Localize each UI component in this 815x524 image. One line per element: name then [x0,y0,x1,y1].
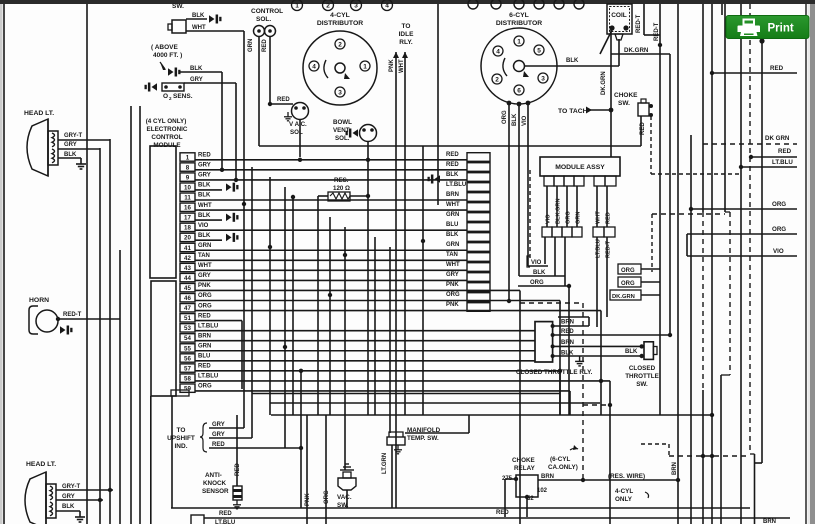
long wire y415 [271,413,714,417]
wire ecm pin 20 BLK [195,239,222,241]
wire rly RED [551,333,673,337]
svg-text:BLK: BLK [198,213,211,219]
ecm pin 53 LT.BLU label [198,323,218,329]
svg-text:45: 45 [184,285,191,292]
junction v301 row57 [299,369,303,373]
ecm pin 44 box [180,273,195,282]
svg-text:1: 1 [295,2,299,9]
closed throttle rly body [535,322,553,362]
closed throttle sw label [625,365,659,388]
svg-text:BLK: BLK [198,183,211,189]
ecm pin 55 GRN label [198,343,211,349]
svg-text:47: 47 [184,305,191,312]
ecm body lower [151,281,176,396]
6-cyl terminal 3 [538,73,548,83]
svg-text:BLK: BLK [190,66,203,72]
svg-text:VIO: VIO [522,115,528,126]
svg-text:TEMP. SW.: TEMP. SW. [407,435,439,442]
ecm pin 42 TAN label [198,253,210,259]
svg-text:RED: RED [262,39,268,52]
svg-text:53: 53 [184,325,191,332]
wire vac-sol RED label [277,97,290,103]
wire LT.BLU bottom label [215,520,235,524]
wire SW BLK [186,18,207,20]
wire bus x703a [702,4,704,212]
svg-text:O: O [163,93,168,100]
svg-text:6-CYL: 6-CYL [509,12,529,19]
wire left bus A [86,4,88,524]
head light HL2 label [26,461,56,468]
svg-text:(RES. WIRE): (RES. WIRE) [608,473,645,480]
ecm pin 17 BLK label [198,213,211,219]
wire horn RED-T [58,318,120,320]
switch SW body [168,20,186,33]
choke relay terminal a [514,477,518,481]
6-cyl terminal 2 [492,74,502,84]
wire dashed h456 [669,454,750,458]
net DK.GRN label [610,290,641,300]
connector2 LT.BLU label [446,182,466,188]
svg-text:Print: Print [768,23,794,35]
junction mesh e [328,293,332,297]
ecm pin 20 box [180,233,195,242]
wire rly BRN1 [551,317,589,328]
wire upshift-box drop [171,396,173,508]
wire choke dashed [650,116,652,174]
4-cyl distributor body [303,31,377,105]
wire ecm pin 54 BRN [195,340,535,342]
svg-text:CONTROL: CONTROL [251,8,283,15]
wire 6cyl BLK [518,104,520,276]
ecm pin 45 box [180,283,195,292]
svg-text:GRY: GRY [198,173,211,179]
wire v687 [686,234,688,256]
wire upshift GRY2 [209,437,252,439]
svg-text:LT.BLU: LT.BLU [198,374,218,380]
ecm pin 47 ORG label [198,303,212,309]
ecm pin 9 GRY label [198,173,211,179]
connector2 BRN label [446,192,459,198]
connector2 GRY label [446,272,459,278]
noise capacitor O2-BLK [168,68,181,77]
choke switch [638,99,653,117]
svg-text:SOL.: SOL. [335,135,350,142]
svg-text:VIO: VIO [531,260,542,266]
junction HL2 GRY [98,498,102,502]
connector2 GRN label [446,242,459,248]
wire HL1 GRY-T [58,139,110,141]
connector2 TAN label [446,252,458,258]
connector2 BLK box [467,233,490,242]
wire RED right-top label [770,65,784,72]
ecm pin 43 WHT label [198,263,212,269]
wire bus x721 [721,375,730,524]
svg-text:GRY: GRY [190,77,203,83]
wire HL2 GRY [56,499,103,501]
wire LT.BLU right label [772,159,793,166]
svg-text:RED: RED [496,510,509,516]
wire HL2 BLK [56,510,80,512]
wire anti-knock RED label [235,463,241,476]
module assy pin row1 [544,176,616,186]
wire ecm pin 43 WHT [195,269,467,271]
wire module-assy RED label [606,212,612,224]
wire dashed h303 [520,302,583,304]
wire res-120 left drop [317,196,319,415]
svg-text:CLOSED THROTTLE RLY.: CLOSED THROTTLE RLY. [516,369,593,376]
junction vac-sol row1 [298,158,302,162]
wire module-assy RED [606,186,608,227]
wire HL1 GRY-T label [64,133,82,139]
wire pin57 drop [559,371,561,415]
connector2 ORG label [446,292,460,298]
svg-text:LT.BLU: LT.BLU [772,159,793,166]
wire O2 BLK label [190,66,203,72]
wire mesh v9 [389,247,391,433]
4-cyl terminal 2 [335,39,345,49]
wire bus x762 jog [755,454,763,524]
svg-text:RED: RED [561,329,574,335]
module assy box [540,157,620,176]
svg-text:DK.GRN: DK.GRN [601,71,607,95]
svg-text:SENS.: SENS. [173,93,193,100]
svg-text:CHOKE: CHOKE [512,457,535,464]
svg-text:ORG: ORG [772,226,786,233]
svg-text:ORG: ORG [324,490,330,504]
ecm pin 41 box [180,243,195,252]
noise capacitor pin20 [226,233,239,242]
junction tach [609,108,614,113]
wire rly BRN2 label [561,340,574,346]
wire ecm pin 17 BLK [195,219,222,221]
svg-text:CHOKE: CHOKE [614,92,638,99]
svg-text:120 Ω: 120 Ω [333,185,350,192]
wire DK.GRN drop to rly [669,54,671,335]
svg-text:RELAY: RELAY [514,465,536,472]
svg-text:3: 3 [354,2,358,9]
wire mesh v2 [251,167,253,438]
ecm pin 51 RED label [198,313,211,319]
wire module-assy RED-T drop [606,237,608,317]
ecm pin 16 WHT label [198,203,212,209]
wire mesh v10 [422,146,424,415]
6-cyl cap terminal 6 [574,0,584,9]
note 4-cyl-only [615,488,649,503]
wire left bus F [139,106,141,524]
top dark bar [0,0,815,4]
head light HL1 [27,119,58,176]
svg-text:GRN: GRN [248,39,254,52]
wire choke-relay left [505,479,516,517]
wire mesh v5 [292,197,294,415]
svg-text:BLK: BLK [566,58,579,64]
svg-text:BLK: BLK [512,113,518,126]
coil body [607,4,632,34]
svg-text:BRN: BRN [561,340,574,346]
wire O2 GRY label [190,77,203,83]
svg-text:DK.GRN: DK.GRN [624,47,649,54]
svg-text:ANTI-: ANTI- [205,472,222,479]
ecm pin 18 box [180,223,195,232]
ecm pin 54 box [180,334,195,343]
svg-text:RED: RED [277,97,290,103]
svg-text:RED: RED [212,442,225,448]
ecm body upper [150,146,176,278]
junction mesh c [268,245,272,249]
svg-text:ORG: ORG [621,268,635,274]
junction mesh a [421,239,425,243]
to idle rly label [399,23,414,46]
connector2 WHT label [446,202,460,208]
wire vac-sol RED [270,103,293,105]
wire ecm pin 42 TAN [195,259,467,261]
svg-text:BLK: BLK [446,172,459,178]
long wire y508 [171,507,750,509]
4-cyl cap terminal 3 [351,0,362,11]
wire rly BLK label [561,351,574,357]
wire bus x741 [740,4,742,524]
noise capacitor horn [60,326,73,335]
svg-text:GRY: GRY [62,494,75,500]
junction HL2 GRY-T [108,488,112,492]
svg-text:PNK: PNK [446,302,459,308]
svg-text:BLU: BLU [446,222,458,228]
svg-text:RED: RED [198,153,211,159]
svg-text:LT.GRN: LT.GRN [382,453,388,474]
4-cyl terminal 1 [360,61,370,71]
svg-text:THROTTLE: THROTTLE [625,373,659,380]
svg-text:RED: RED [219,511,232,517]
ecm pin 56 BLU label [198,354,210,360]
wire SW WHT [186,31,244,157]
svg-text:BLK: BLK [533,270,546,276]
wire mesh v1 [243,157,245,428]
svg-text:RED: RED [446,152,459,158]
wire RED right label [778,148,792,155]
wire mesh h2 [252,393,560,395]
wire 6cyl BLK-to-coil label [566,58,579,64]
wire module-assy WHT [596,186,598,227]
svg-text:SOL: SOL [290,129,303,136]
svg-text:CA.ONLY): CA.ONLY) [548,464,578,471]
svg-text:WHT: WHT [446,202,460,208]
choke relay 52 [527,496,534,502]
svg-text:COIL: COIL [611,12,627,19]
svg-text:LT.BLU: LT.BLU [446,182,466,188]
wire RED bottom [204,517,790,519]
junction y415 x610 [608,403,612,407]
svg-text:58: 58 [184,375,191,382]
junction mesh 55 [283,345,287,349]
svg-text:ORG: ORG [198,384,212,390]
svg-text:1: 1 [517,38,521,45]
connector2 BLU label [446,222,458,228]
note 6-cyl-ca-only [548,456,578,471]
wire ecm pin 46 ORG [195,300,560,302]
wire rly BRN2 [551,344,644,348]
ecm pin 41 GRN label [198,243,211,249]
wire bus x750 jog [750,453,755,455]
connector2 GRN label [446,212,459,218]
closed throttle sw body [644,342,657,360]
svg-text:ORG: ORG [621,281,635,287]
junction vac-sol [268,102,272,106]
ecm pin 43 box [180,263,195,272]
svg-text:52: 52 [527,496,534,502]
wire rly BLK [551,354,644,358]
junction x660 [658,43,662,47]
wire ecm pin 55 GRN [195,350,535,352]
svg-text:ORG: ORG [530,280,544,286]
svg-text:56: 56 [184,355,191,362]
wire HL1 BLK [58,157,81,159]
svg-text:BOWL: BOWL [333,119,352,126]
wire left bus D [119,250,121,524]
wire pin51 drop [241,321,243,389]
svg-text:SW.: SW. [636,381,648,388]
svg-text:WHT: WHT [198,263,212,269]
wire PNK bottom [306,415,308,524]
svg-text:GRY: GRY [212,422,225,428]
svg-text:RED: RED [235,463,241,476]
svg-text:BLK: BLK [62,504,75,510]
wire HL1 GRY [58,148,100,150]
wire y146 long [259,145,641,147]
svg-text:BLK: BLK [64,152,77,158]
wire DK GRN right label [765,135,790,142]
wire net ORG [518,284,571,288]
svg-text:GRY: GRY [212,432,225,438]
ecm pin 45 PNK label [198,283,211,289]
noise capacitor pin17 [226,213,239,222]
wire ecm pin 56 BLU [195,360,535,362]
svg-text:4: 4 [312,63,316,70]
svg-text:ORG: ORG [502,110,508,124]
connector2 BRN box [467,193,490,202]
connector2 RED box [467,163,490,172]
choke relay 102 [537,488,548,494]
wire HL2 GRY-T [56,489,113,491]
wire vac-sw drop [346,490,348,508]
ecm label [146,118,188,149]
svg-text:LT.BLU: LT.BLU [215,520,235,524]
wire coil DK.GRN drop [610,30,612,157]
svg-text:DISTRIBUTOR: DISTRIBUTOR [317,20,363,27]
ecm pin 55 box [180,344,195,353]
wire left bus E [130,106,132,524]
wire LT.BLU right [739,165,797,169]
wire ORG right1 label [772,201,786,208]
wire ecm pin 57 RED [195,370,560,372]
svg-text:5: 5 [537,47,541,54]
wire ecm pin 9 GRY [195,179,467,181]
wire module-assy ORG label [566,211,572,224]
choke sw label [614,92,638,107]
ecm pin 44 GRY label [198,273,211,279]
wire DK GRN right [703,143,797,145]
wire ecm pin 41 GRN [195,249,467,251]
svg-text:DK GRN: DK GRN [765,135,790,142]
svg-text:TO: TO [177,427,186,434]
anti-knock label [202,472,229,495]
module assy pin row2 [542,227,615,237]
diagram left border [3,4,5,524]
wire control-sol RED [269,36,271,104]
svg-text:BLK: BLK [446,232,459,238]
svg-text:SW.: SW. [618,100,630,107]
6-cyl distributor body [481,28,557,104]
wire manifold feed [405,415,469,433]
svg-text:IDLE: IDLE [399,31,414,38]
ecm pin 9 box [180,173,195,182]
wire ecm left edge extension [150,396,152,524]
upshift brace [200,423,207,452]
svg-text:2: 2 [495,76,499,83]
wire module-assy LT.BLU drop [596,237,598,327]
svg-text:ELECTRONIC: ELECTRONIC [147,126,188,133]
connector2 RED label [446,152,459,158]
wire sw BLK label [625,349,638,355]
vac solenoid upper [284,103,309,158]
wire LT.GRN label [382,453,388,474]
6-cyl terminal 4 [493,46,503,56]
wire net VIO [528,265,548,267]
junction pin8 [220,168,224,172]
O2 connector [145,83,185,92]
wire 6cyl BLK-to-coil [524,39,619,66]
connector2 PNK label [446,282,459,288]
wire dashed h405 [583,404,610,406]
svg-text:BRN: BRN [763,519,776,524]
junction pin9 [234,178,238,182]
6-cyl cap terminal 5 [554,0,564,9]
wire left bus B (GRY) [99,148,101,524]
svg-text:VIO: VIO [198,223,209,229]
svg-text:BLK: BLK [198,193,211,199]
wire DK.GRN vert label [601,71,607,95]
wire to-idle PNK [393,52,399,508]
left gray edge [0,4,3,524]
svg-text:55: 55 [184,345,191,352]
svg-text:V A C.: V A C. [289,121,307,128]
svg-text:RLY.: RLY. [399,39,413,46]
6-cyl terminal 6 [514,85,524,95]
right gray edge [808,4,815,524]
wire anti-knock RED [236,415,238,486]
svg-text:RED: RED [198,313,211,319]
wire rly RED label [561,329,574,335]
net ORG-r2 label [618,277,641,287]
wire bus x725 [724,4,726,212]
ecm pin 47 box [180,304,195,313]
connector2 GRY box [467,273,490,282]
resistor RES 120 label [333,177,350,192]
net ORG-r1 label [618,264,641,274]
wire bus x660 [659,4,661,415]
svg-text:44: 44 [184,275,191,282]
connector2 BLK label [446,172,459,178]
wire v569 [568,286,570,415]
wire ORG right2 [687,233,797,235]
wire RED right [749,155,797,159]
bowl vent sol label [333,119,352,142]
module assy label [555,164,605,171]
coil label [611,12,627,19]
junction bowl-vent row1 [366,158,370,162]
connector2 GRN box [467,243,490,252]
noise capacitor SW [209,15,222,24]
wire PNK label [389,59,395,72]
